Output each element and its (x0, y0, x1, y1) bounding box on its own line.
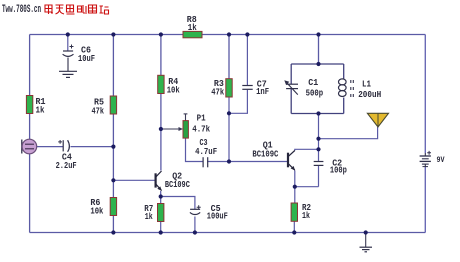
svg-text:P1: P1 (197, 113, 206, 124)
wire: C7 top to rail (246, 35, 248, 86)
svg-text:BC109C: BC109C (252, 149, 278, 160)
wire: feedback node to C7 bottom (229, 90, 247, 114)
node: rail-R2 (292, 230, 296, 234)
ground (bottom) (360, 247, 373, 252)
node: rail-tank (316, 32, 320, 36)
wire: Q1 collector wire (295, 149, 319, 150)
wire: battery column (rail to battery +) (424, 35, 426, 154)
wire: tank right edge below L1 (343, 98, 345, 114)
wire: tank right edge above L1 (343, 64, 345, 79)
wire: R7 bottom to rail (160, 222, 162, 233)
watermark text Tww.780S.cn (2, 4, 41, 16)
svg-text:4.7uF: 4.7uF (195, 146, 217, 157)
svg-text:1k: 1k (302, 210, 310, 221)
svg-text:L1: L1 (362, 78, 371, 89)
resistor R7 (144, 203, 164, 222)
node: P1 wiper (159, 127, 163, 131)
wire: Q1 emitter down to node (294, 171, 296, 204)
wire: R6 bottom to rail (112, 216, 114, 233)
battery B1 9V (420, 151, 446, 167)
capacitor C7 (242, 78, 269, 97)
transistor Q2 (156, 171, 191, 192)
node: C4-R5-R6 (111, 145, 115, 149)
capacitor C6 (63, 44, 96, 71)
wire: tank left edge below C1 (290, 89, 292, 114)
wire: left column rail to R1 (29, 35, 31, 96)
capacitor C5 (190, 203, 228, 222)
wire: C3 right plate to Q1 base (207, 161, 287, 163)
wire: tank bottom down to C2 (318, 114, 320, 162)
resistor R4 (158, 75, 180, 95)
wire: C6 stem from rail (67, 35, 69, 52)
watermark CJK 电子电路图站 (45, 5, 109, 14)
svg-text:1k: 1k (188, 22, 197, 33)
wire: Q2 base wire (113, 179, 154, 181)
svg-text:1k: 1k (36, 105, 45, 116)
resistor R3 (211, 78, 232, 98)
node: rail-ground (364, 230, 368, 234)
wire: microphone to bottom rail (29, 154, 31, 233)
capacitor C2 (314, 158, 347, 176)
node: tank top (316, 62, 320, 66)
resistor R5 (92, 96, 117, 117)
node: rail-C6 (66, 32, 70, 36)
node: rail-R3 (227, 32, 231, 36)
node: rail-C5 (193, 230, 197, 234)
ground (C6) (59, 71, 77, 77)
wire: Q2 emitter node to R7 (160, 191, 162, 204)
wire: R4 bottom through wiper node to Q2 collector (160, 94, 162, 171)
svg-text:4.7k: 4.7k (192, 123, 210, 134)
svg-text:1k: 1k (145, 211, 153, 222)
wire: feedback node down to base node (228, 113, 230, 161)
wire: ground stem at bottom (365, 233, 367, 248)
potentiometer P1 (161, 113, 211, 139)
wire: P1 bottom to C3 left plate (186, 138, 203, 161)
resistor R1 (26, 96, 45, 116)
svg-text:100p: 100p (330, 165, 347, 176)
node: C3-Q1 base (227, 159, 231, 163)
wire: R3 column rail to R3 (228, 35, 230, 79)
wire: battery - to bottom rail (424, 167, 426, 233)
node: rail-C7 (245, 32, 249, 36)
resistor R2 (291, 202, 311, 221)
transistor Q1 (252, 140, 295, 171)
node: rail-R7 (159, 230, 163, 234)
node: rail-R4 (159, 32, 163, 36)
node: tank bottom (316, 111, 320, 115)
svg-text:200uH: 200uH (358, 89, 381, 100)
wire: R3 bottom to feedback node (228, 97, 230, 113)
wire: Q1 emitter node to C2 branch (295, 186, 319, 188)
svg-text:47k: 47k (211, 87, 224, 98)
wire: mic to C4 left plate (37, 146, 63, 148)
svg-text:47k: 47k (92, 106, 105, 117)
wire: C5 bottom to rail (194, 217, 196, 233)
wire: C2 bottom to emitter wire (318, 166, 320, 187)
node: collector branch (316, 147, 320, 151)
wire: R4 column rail to R4 (160, 35, 162, 76)
resistor R6 (90, 197, 116, 216)
wire: tank stem from rail (318, 35, 320, 65)
node: Q2 emitter (159, 194, 163, 198)
svg-text:2.2uF: 2.2uF (56, 160, 77, 171)
capacitor C3 (195, 137, 217, 168)
wire: tank circuit rectangle top edge (291, 63, 344, 65)
node: antenna branch (316, 137, 320, 141)
svg-text:9V: 9V (437, 155, 446, 165)
node: Q1 emitter (293, 185, 297, 189)
resistor R8 (183, 14, 202, 38)
svg-text:500p: 500p (306, 87, 324, 98)
wire: R5 column rail to R5 (112, 35, 114, 97)
node: R3-C7 feedback (227, 111, 231, 115)
svg-text:100uF: 100uF (207, 211, 228, 222)
wire: R1 to microphone (29, 114, 31, 140)
svg-text:BC109C: BC109C (165, 179, 190, 190)
inductor L1 (339, 78, 382, 100)
wire: top supply rail (right of R8) (202, 34, 425, 36)
antenna AE (367, 113, 388, 127)
svg-text:Tww.780S.cn: Tww.780S.cn (2, 4, 41, 16)
node: rail-R5 (111, 32, 115, 36)
wire: top supply rail (left of R8) (30, 34, 183, 36)
node: Q2 base (111, 178, 115, 182)
wire: bottom ground rail (30, 232, 426, 234)
wire: R5 bottom through C4 node and base node to R6 (112, 114, 114, 198)
node: rail-R6 (111, 230, 115, 234)
wire: antenna feed (319, 127, 378, 139)
svg-text:10k: 10k (90, 205, 103, 216)
wire: R2 bottom to rail (293, 221, 295, 232)
variable capacitor C1 (284, 77, 323, 98)
capacitor C4 (56, 140, 77, 171)
wire: C4 right plate to node (71, 146, 114, 148)
svg-text:1nF: 1nF (256, 86, 269, 97)
svg-text:10k: 10k (167, 84, 180, 95)
wire: tank left edge above C1 (290, 64, 292, 84)
svg-text:10uF: 10uF (78, 53, 95, 64)
wire: tank bottom edge (291, 113, 344, 115)
microphone MIC (22, 139, 37, 154)
wire: emitter node to C5 (161, 197, 195, 210)
